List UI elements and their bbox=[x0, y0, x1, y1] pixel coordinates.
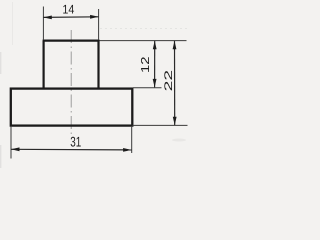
arrowhead 22 top bbox=[173, 41, 177, 50]
faint scan artifact: left edge smudges bbox=[0, 52, 2, 74]
svg-text:22: 22 bbox=[163, 70, 175, 92]
arrowhead 12 bottom bbox=[153, 79, 157, 88]
svg-text:14: 14 bbox=[62, 2, 74, 16]
extension line right of dim 31 (base right extended down) bbox=[131, 126, 133, 153]
arrowhead 14 left bbox=[43, 16, 52, 20]
dimension line 22 bbox=[174, 41, 176, 126]
extension line right of dim 14 bbox=[98, 9, 100, 40]
svg-text:12: 12 bbox=[140, 57, 152, 74]
paper background bbox=[0, 0, 191, 169]
arrowhead 12 top bbox=[153, 41, 157, 50]
mid extension line (base top extended right) bbox=[133, 87, 162, 89]
bottom extension line (base bottom extended right) bbox=[132, 124, 187, 126]
arrowhead 31 right bbox=[123, 148, 132, 152]
arrowhead 14 right bbox=[90, 15, 99, 19]
top extension line (stem top extended right) bbox=[100, 40, 187, 42]
faint scan artifact: vertical line top-left bbox=[12, 2, 14, 45]
svg-text:31: 31 bbox=[70, 134, 81, 150]
faint scan artifact: dotted line right bbox=[100, 28, 189, 30]
arrowhead 31 left bbox=[11, 147, 20, 151]
centerline (vertical axis, dash-dot) bbox=[70, 30, 72, 136]
base (lower rectangle of T profile) bbox=[11, 89, 133, 126]
extension line left of dim 14 bbox=[42, 7, 44, 41]
extension line left of dim 31 (base left extended down) bbox=[10, 126, 12, 159]
stem top edge bbox=[43, 39, 100, 41]
dimension line 14 bbox=[43, 16, 98, 19]
arrowhead 22 bottom bbox=[173, 117, 177, 126]
dimension line 31 bbox=[11, 148, 132, 151]
stem right edge bbox=[97, 41, 99, 89]
stem left edge bbox=[42, 41, 44, 89]
dimension line 12 bbox=[154, 41, 156, 88]
faint scan artifact: smudge bottom right bbox=[172, 139, 186, 142]
